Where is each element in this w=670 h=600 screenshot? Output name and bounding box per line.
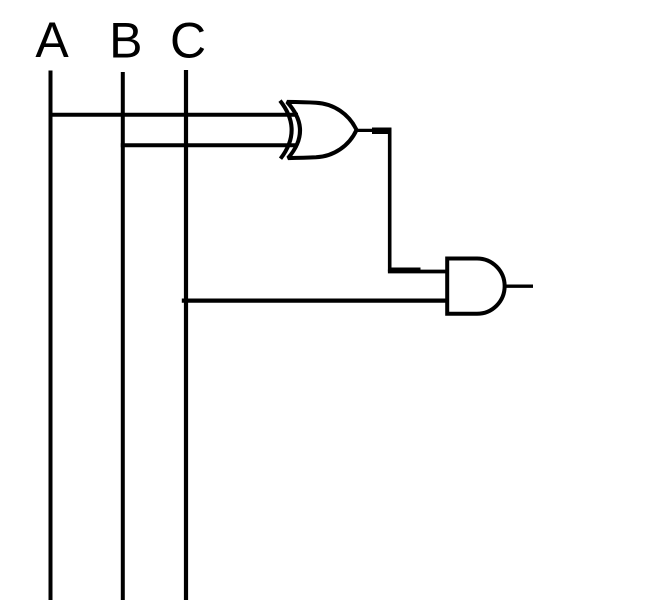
wire XOR output horizontal [355, 129, 392, 133]
input line A (vertical wire) [49, 71, 53, 600]
wire A to XOR top input [49, 113, 299, 117]
svg-text:A: A [35, 12, 69, 68]
svg-text:C: C [170, 13, 206, 69]
svg-text:B: B [109, 13, 142, 69]
AND gate U2 [447, 259, 504, 314]
AND output wire [505, 285, 533, 288]
wire corner to AND top input [388, 270, 447, 272]
input line B (vertical wire) [121, 72, 125, 600]
XOR gate U1 [280, 101, 357, 159]
wire C to AND bottom input [182, 299, 447, 303]
wire B to XOR bottom input [121, 143, 298, 147]
input line C (vertical wire) [184, 70, 188, 600]
wire XOR output vertical down [388, 128, 392, 272]
